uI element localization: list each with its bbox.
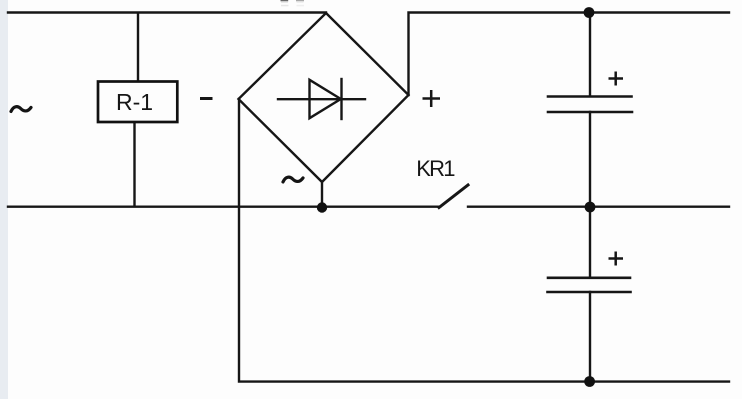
svg-text:KR1: KR1 [416, 156, 455, 181]
svg-text:R-1: R-1 [116, 89, 153, 115]
